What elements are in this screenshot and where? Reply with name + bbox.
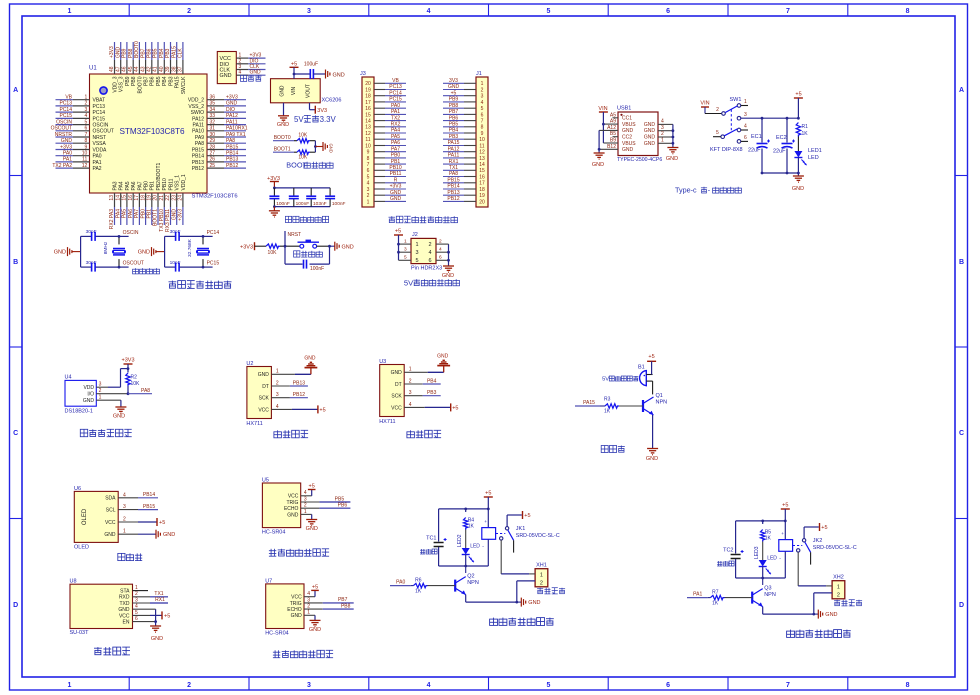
svg-text:NRSTR: NRSTR — [55, 132, 73, 138]
capacitor 100nF — [289, 196, 309, 207]
svg-text:4: 4 — [661, 119, 664, 125]
connector XH2 — [832, 575, 845, 599]
capacitor TC2 tantalum — [723, 521, 744, 578]
svg-text:PC14: PC14 — [93, 110, 106, 116]
U6 SCL wire + net PB15 — [118, 504, 158, 510]
ground (U7) — [309, 620, 321, 633]
svg-text:5: 5 — [716, 130, 719, 136]
svg-text:100nF: 100nF — [296, 201, 310, 207]
svg-text:GND: GND — [306, 526, 318, 532]
U1 right pin wires — [207, 100, 246, 168]
svg-text:BOOT0: BOOT0 — [134, 41, 140, 58]
svg-text:PA7: PA7 — [134, 209, 140, 218]
svg-text:Type-c: Type-c — [675, 186, 697, 195]
wire R to base — [428, 585, 456, 587]
svg-text:PB0: PB0 — [391, 153, 401, 159]
svg-text:J2: J2 — [412, 232, 418, 238]
svg-text:11: 11 — [365, 137, 370, 143]
svg-text:PB4: PB4 — [449, 128, 459, 134]
net label PC14 — [207, 230, 220, 236]
U2 VCC wire to +5 — [271, 405, 325, 413]
relay top rail wire — [736, 520, 787, 523]
svg-text:PA9 TX1: PA9 TX1 — [226, 132, 246, 138]
relay switch contacts — [793, 523, 828, 565]
svg-text:GND: GND — [258, 372, 270, 378]
U1 left pin wires — [56, 100, 90, 168]
label crystal circuit — [133, 268, 160, 274]
svg-text:2: 2 — [439, 238, 442, 244]
U1 bottom pin numbers 13-24 — [109, 195, 183, 201]
svg-text:LED: LED — [470, 544, 480, 550]
svg-text:GND: GND — [448, 84, 460, 90]
capacitor TC1 tantalum — [426, 509, 447, 566]
U4 I/O wire + net PA8 — [96, 386, 152, 395]
ground (relay, side) — [521, 598, 540, 607]
svg-text:PB12: PB12 — [293, 392, 305, 398]
svg-text:2: 2 — [187, 8, 191, 15]
svg-text:103nF: 103nF — [313, 201, 327, 207]
svg-text:1: 1 — [540, 573, 543, 579]
crystal 32.768K — [187, 238, 210, 257]
svg-text:8MHz: 8MHz — [103, 241, 109, 254]
svg-text:PB15: PB15 — [192, 147, 204, 153]
svg-text:13: 13 — [365, 125, 371, 131]
svg-text:KFT DIP-8X8: KFT DIP-8X8 — [710, 147, 743, 153]
svg-text:+5: +5 — [159, 520, 165, 526]
capacitor 100nF — [325, 196, 345, 207]
svg-text:OSCOUT: OSCOUT — [93, 129, 114, 135]
resistor R4 1K — [464, 509, 475, 530]
svg-text:3: 3 — [367, 187, 370, 193]
svg-text:PB8: PB8 — [449, 103, 459, 109]
svg-text:PB0: PB0 — [144, 181, 150, 191]
svg-text:PB5: PB5 — [449, 122, 459, 128]
svg-text:3: 3 — [481, 94, 484, 100]
svg-text:GND: GND — [151, 636, 163, 642]
U2 pin numbers — [276, 369, 279, 410]
svg-text:VIN: VIN — [291, 86, 297, 95]
svg-text:PB6: PB6 — [338, 503, 348, 509]
svg-text:8: 8 — [367, 156, 370, 162]
svg-text:GND: GND — [437, 354, 449, 360]
svg-text:VDD_1: VDD_1 — [181, 174, 187, 190]
ground (relay, side) — [818, 610, 837, 619]
svg-text:PA5: PA5 — [125, 181, 131, 190]
svg-text:2: 2 — [428, 242, 431, 248]
svg-text:EC2: EC2 — [776, 135, 787, 141]
svg-text:4: 4 — [427, 682, 431, 689]
svg-text:1: 1 — [67, 8, 71, 15]
svg-text:C: C — [13, 430, 18, 437]
svg-text:VDD: VDD — [83, 385, 94, 391]
svg-text:14: 14 — [365, 119, 371, 125]
svg-text:VBUS: VBUS — [622, 122, 636, 128]
ground (U4) — [113, 407, 127, 420]
net label BOOT0 — [273, 135, 294, 141]
svg-text:A: A — [959, 87, 964, 94]
wire gnd rail (power) — [761, 172, 799, 175]
svg-text:PB14: PB14 — [192, 154, 204, 160]
U1 bottom pin names — [112, 162, 186, 190]
svg-text:PC13: PC13 — [93, 104, 106, 110]
svg-text:ECHO: ECHO — [287, 607, 302, 613]
USB1 right pin numbers — [661, 119, 664, 144]
svg-text:OSCOUT: OSCOUT — [51, 126, 72, 132]
U1 bottom net labels — [109, 209, 183, 232]
label reset circuit — [294, 251, 323, 257]
net label NRST — [288, 232, 302, 238]
svg-text:PA7: PA7 — [391, 146, 400, 152]
wire +3V3 to R — [255, 245, 267, 247]
resistor 10K (BOOT0) — [297, 132, 310, 143]
svg-text:PA0: PA0 — [391, 103, 400, 109]
U7 GND wire — [304, 615, 315, 620]
connector download port — [217, 52, 236, 84]
svg-text:R1: R1 — [802, 124, 809, 130]
module U7 HC-SR04 — [265, 578, 304, 636]
svg-text:A: A — [13, 87, 18, 94]
svg-text:HC-SR04: HC-SR04 — [265, 630, 289, 636]
svg-text:100uF: 100uF — [304, 62, 318, 68]
svg-text:PB5: PB5 — [156, 76, 162, 86]
U4 GND wire — [96, 400, 121, 407]
wire emitter to gnd rail — [763, 607, 818, 616]
svg-text:2: 2 — [481, 87, 484, 93]
svg-text:3: 3 — [307, 682, 311, 689]
svg-text:5V: 5V — [404, 278, 414, 287]
svg-text:+5: +5 — [395, 229, 401, 235]
power 3V3 — [317, 108, 327, 114]
ground (U5) — [306, 520, 318, 533]
svg-text:2: 2 — [99, 388, 102, 394]
svg-text:VCC: VCC — [288, 494, 299, 500]
label BOOT setting circuit — [286, 161, 333, 170]
svg-text:6: 6 — [666, 682, 670, 689]
svg-text:VIN: VIN — [598, 106, 607, 112]
svg-text:1: 1 — [837, 585, 840, 591]
svg-text:SCK: SCK — [391, 394, 402, 400]
svg-text:6: 6 — [367, 168, 370, 174]
ground (U3) — [437, 354, 450, 366]
relay bottom rail wire — [439, 565, 489, 568]
svg-text:D: D — [13, 602, 18, 609]
net label PC15 — [207, 261, 220, 267]
svg-text:GND: GND — [825, 612, 837, 618]
svg-text:GND: GND — [328, 144, 333, 153]
svg-text:R3: R3 — [604, 397, 611, 403]
svg-text:GND: GND — [333, 72, 345, 78]
U1 left pin names — [93, 98, 114, 172]
U4 VDD wire — [96, 364, 129, 387]
svg-text:PC13: PC13 — [59, 101, 72, 107]
svg-text:PC15: PC15 — [93, 116, 106, 122]
svg-text:PB5: PB5 — [335, 496, 345, 502]
svg-text:GND: GND — [226, 101, 238, 107]
svg-text:7: 7 — [786, 8, 790, 15]
svg-text:+3V3: +3V3 — [122, 358, 135, 364]
download port pin numbers — [239, 53, 242, 76]
label white socket — [834, 600, 862, 606]
resistor R2 10K — [126, 373, 140, 387]
svg-text:GND: GND — [309, 627, 321, 633]
svg-text:PB10: PB10 — [162, 178, 168, 190]
svg-text:1: 1 — [404, 238, 407, 244]
svg-text:R6: R6 — [415, 578, 422, 584]
svg-text:PB3: PB3 — [165, 48, 171, 58]
svg-text:SWIO: SWIO — [191, 110, 204, 116]
svg-text:PA4: PA4 — [119, 181, 125, 190]
wire BOOT junction — [310, 141, 323, 153]
svg-text:XH2: XH2 — [833, 575, 844, 581]
svg-text:PA3: PA3 — [112, 181, 118, 190]
svg-text:5: 5 — [481, 106, 484, 112]
U8 RXD wire + net TX1 — [133, 591, 169, 597]
svg-text:PA0: PA0 — [63, 151, 72, 157]
U5 pin numbers — [304, 490, 307, 515]
transistor Q3 NPN — [752, 578, 776, 607]
svg-text:4: 4 — [744, 124, 747, 130]
svg-text:B: B — [959, 259, 964, 266]
svg-text:3: 3 — [661, 125, 664, 131]
svg-text:XC6206: XC6206 — [322, 98, 342, 104]
svg-text:PA9: PA9 — [195, 135, 204, 141]
svg-text:PA1: PA1 — [63, 157, 72, 163]
sensor U4 DS18B20-1 — [65, 375, 97, 415]
svg-text:EC1: EC1 — [751, 134, 762, 140]
svg-text:PA8: PA8 — [226, 138, 235, 144]
svg-text:5: 5 — [367, 174, 370, 180]
svg-text:GND: GND — [291, 613, 303, 619]
svg-text:STM32F103C8T6: STM32F103C8T6 — [192, 194, 238, 200]
svg-text:1: 1 — [99, 395, 102, 401]
svg-text:NRST: NRST — [93, 135, 107, 141]
svg-text:SU-03T: SU-03T — [70, 630, 90, 636]
svg-text:CLK: CLK — [178, 48, 184, 58]
J3 net labels — [389, 78, 402, 202]
svg-text:+: + — [781, 531, 784, 536]
label tantalum cap — [717, 561, 734, 566]
U1 top net labels — [109, 41, 183, 58]
svg-text:8: 8 — [481, 125, 484, 131]
svg-text:15: 15 — [365, 112, 371, 118]
ground at regulator — [277, 116, 289, 128]
transistor Q1 NPN — [643, 393, 667, 415]
svg-text:PB9: PB9 — [449, 97, 459, 103]
svg-text:1K: 1K — [415, 589, 422, 595]
svg-text:SCL: SCL — [106, 508, 116, 514]
svg-text:PB5: PB5 — [153, 48, 159, 58]
svg-text:PA6: PA6 — [391, 140, 400, 146]
svg-text:VCC: VCC — [291, 595, 302, 601]
svg-text:PA6: PA6 — [128, 209, 134, 218]
svg-text:GND: GND — [304, 356, 316, 362]
svg-text:PB12: PB12 — [226, 163, 238, 169]
svg-text:10K: 10K — [268, 250, 278, 256]
U5 ECHO wire + net PB6 — [301, 503, 351, 509]
svg-text:+3V3: +3V3 — [226, 95, 238, 101]
svg-text:PB1: PB1 — [391, 159, 401, 165]
ground (U6, side) — [156, 530, 175, 539]
svg-text:PA15: PA15 — [171, 46, 177, 58]
U3 SCK wire + net PB3 — [404, 390, 441, 396]
svg-text:GND: GND — [644, 141, 656, 147]
svg-text:PB6: PB6 — [449, 115, 459, 121]
U1 right pin numbers 36-25 — [210, 95, 216, 169]
svg-text:+3V3: +3V3 — [390, 184, 402, 190]
J2 right wires — [436, 244, 450, 266]
svg-text:JK2: JK2 — [813, 538, 822, 544]
svg-text:PC14: PC14 — [59, 107, 72, 113]
J2 left wires — [397, 235, 411, 260]
svg-text:PB7: PB7 — [338, 597, 348, 603]
svg-text:1: 1 — [67, 682, 71, 689]
label Type-c power circuit — [675, 186, 741, 195]
capacitor EC2 22uF — [773, 118, 795, 173]
U8 GND wire — [133, 609, 156, 621]
ground (power circuit) — [792, 173, 804, 192]
svg-text:6: 6 — [428, 258, 431, 264]
svg-text:15: 15 — [479, 168, 485, 174]
svg-text:GND: GND — [391, 370, 403, 376]
svg-text:8: 8 — [906, 682, 910, 689]
wire BOOT0 to R — [294, 140, 297, 142]
transistor Q2 NPN — [455, 566, 479, 595]
svg-text:+5: +5 — [795, 92, 801, 98]
svg-text:VDD_2: VDD_2 — [188, 98, 204, 104]
U5 TRIG wire + net PB5 — [301, 496, 351, 502]
U8 VCC wire to +5 — [133, 611, 171, 619]
svg-text:U1: U1 — [89, 66, 97, 72]
capacitor 30pF — [170, 229, 181, 241]
download port net labels — [250, 53, 262, 76]
svg-text:PA15: PA15 — [583, 400, 595, 406]
svg-text:PB4: PB4 — [159, 48, 165, 58]
crystal 8MHz — [103, 241, 126, 255]
svg-text:4: 4 — [439, 246, 442, 252]
svg-text:R: R — [394, 178, 398, 184]
label weighing module 1 — [274, 430, 308, 438]
svg-text:GND: GND — [592, 162, 604, 168]
svg-text:+5: +5 — [821, 525, 827, 531]
svg-text:VSS_2: VSS_2 — [188, 104, 204, 110]
svg-text:13: 13 — [479, 156, 485, 162]
svg-text:6: 6 — [481, 112, 484, 118]
svg-text:STM32F103C8T6: STM32F103C8T6 — [119, 127, 185, 136]
svg-text:GND: GND — [61, 138, 73, 144]
svg-text:GND: GND — [390, 196, 402, 202]
svg-text:PB11: PB11 — [168, 178, 174, 190]
svg-text:CC2: CC2 — [622, 135, 632, 141]
svg-text:VOUT: VOUT — [306, 84, 312, 98]
U8 EN wire — [133, 620, 158, 626]
resistor R6 1K — [414, 578, 428, 595]
svg-text:ECHO: ECHO — [284, 506, 299, 512]
svg-text:1K: 1K — [765, 536, 772, 542]
svg-text:19: 19 — [365, 87, 371, 93]
svg-text:B: B — [13, 259, 18, 266]
svg-text:11: 11 — [479, 143, 484, 149]
wire R to base — [725, 597, 753, 599]
svg-text:6: 6 — [744, 135, 747, 141]
svg-text:3: 3 — [404, 246, 407, 252]
capacitor EC1 22uF — [748, 118, 770, 173]
svg-text:PA11: PA11 — [226, 119, 238, 125]
svg-text:GND: GND — [138, 250, 150, 256]
svg-text:PA7: PA7 — [137, 181, 143, 190]
net label BOOT1 — [273, 147, 294, 153]
svg-text:PC14: PC14 — [389, 90, 402, 96]
svg-text:PA8: PA8 — [449, 171, 458, 177]
svg-text:GND: GND — [287, 512, 299, 518]
svg-text:100nF: 100nF — [276, 201, 290, 207]
svg-text:USB1: USB1 — [617, 106, 631, 112]
label weighing module 2 — [407, 430, 441, 438]
svg-text:PA1: PA1 — [391, 109, 400, 115]
U8 pin numbers — [135, 585, 138, 622]
svg-text:5: 5 — [546, 8, 550, 15]
U1 right net labels — [226, 95, 248, 169]
svg-text:PB6: PB6 — [150, 76, 156, 86]
capacitor 100uF — [304, 62, 318, 80]
U1 left net labels — [51, 95, 73, 169]
wire +5 to buzzer and collector — [652, 361, 653, 394]
capacitor 100nF — [269, 196, 289, 207]
wire LED1 to gnd rail — [797, 158, 800, 175]
svg-text:GND: GND — [666, 156, 678, 162]
svg-text:PB1: PB1 — [150, 181, 156, 191]
svg-text:+5: +5 — [291, 62, 297, 68]
power VIN (SW1) — [700, 101, 709, 108]
svg-text:OSCIN: OSCIN — [123, 230, 139, 236]
power VIN — [598, 106, 607, 112]
svg-text:PB0: PB0 — [140, 209, 146, 219]
wire SW1 pin3 to +5 rail — [741, 117, 800, 120]
svg-text:PB14: PB14 — [447, 184, 459, 190]
svg-text:2: 2 — [540, 581, 543, 587]
wire +5 to VIN — [293, 67, 311, 78]
J2 outer pin numbers — [404, 238, 442, 260]
svg-text:PC15: PC15 — [59, 113, 72, 119]
svg-text:LED2: LED2 — [457, 534, 463, 547]
ground (crystal) — [54, 247, 81, 256]
svg-text:TC1: TC1 — [426, 536, 436, 542]
label relay control output — [490, 618, 554, 626]
label MCU pin headers — [389, 216, 458, 223]
svg-text:STA: STA — [120, 589, 130, 595]
svg-text:TYPEC-2500-4CP6: TYPEC-2500-4CP6 — [617, 157, 662, 163]
U1 bottom pin wires — [115, 193, 183, 225]
filter cap rails — [273, 187, 330, 209]
svg-text:PA11: PA11 — [448, 153, 460, 159]
svg-text:PB3: PB3 — [449, 134, 459, 140]
svg-text:17: 17 — [365, 100, 371, 106]
label 5V backup power — [404, 278, 460, 287]
label ultrasonic module 2 — [273, 650, 333, 657]
svg-text:3V3: 3V3 — [449, 78, 458, 84]
relay coil JK2 — [779, 521, 793, 578]
svg-text:10K: 10K — [298, 132, 308, 138]
svg-text:PB15: PB15 — [226, 144, 238, 150]
svg-text:SCK: SCK — [259, 396, 270, 402]
svg-text:GND: GND — [277, 122, 289, 128]
net label OSCOUT — [123, 261, 144, 267]
svg-text:GND: GND — [644, 135, 656, 141]
svg-text:1: 1 — [416, 242, 419, 248]
U7 TRIG wire + net PB7 — [304, 597, 354, 603]
svg-text:GND: GND — [342, 244, 354, 250]
svg-text:RX1: RX1 — [155, 597, 165, 603]
svg-text:32.768K: 32.768K — [187, 238, 193, 257]
